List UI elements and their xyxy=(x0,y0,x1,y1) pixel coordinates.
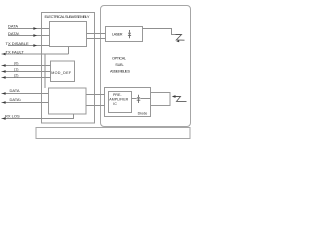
wire MOD-DEF 0 xyxy=(2,65,51,67)
arrow DATA out xyxy=(2,92,6,95)
electrical subassembly box xyxy=(42,13,95,124)
MOD_DEF box xyxy=(51,61,75,82)
tx fiber squiggle xyxy=(176,35,185,41)
wire RX LOS xyxy=(2,114,74,119)
wire DATA-bar out xyxy=(2,102,49,104)
svg-text:SUB-: SUB- xyxy=(115,63,124,67)
svg-text:(1): (1) xyxy=(14,67,18,71)
svg-text:DATA: DATA xyxy=(10,88,20,93)
photodiode symbol xyxy=(137,95,141,103)
pre-amplifier IC box xyxy=(109,92,132,113)
rx fiber squiggle xyxy=(176,97,187,102)
arrow TX DISABLE xyxy=(33,44,37,47)
svg-text:TX FAULT: TX FAULT xyxy=(6,49,25,54)
wire IC drop xyxy=(44,54,46,88)
receiver OSA box xyxy=(105,88,151,117)
wire receiver signal plus xyxy=(86,94,105,96)
post-amplifier IC box xyxy=(49,88,87,114)
svg-text:DATA\: DATA\ xyxy=(8,31,20,36)
arrow MOD-DEF 0 xyxy=(2,64,6,67)
wire TX DISABLE xyxy=(8,45,50,47)
tx fiber arrow xyxy=(176,40,179,42)
svg-text:Diode: Diode xyxy=(138,111,148,115)
svg-text:PRE-: PRE- xyxy=(113,93,122,97)
svg-text:AMPLIFIER: AMPLIFIER xyxy=(109,97,128,101)
wire MOD-DEF 1 xyxy=(2,71,51,73)
wire receiver signal minus xyxy=(86,105,105,107)
wire DATA in xyxy=(8,28,50,30)
wire laser drive minus xyxy=(87,38,106,40)
wire TX FAULT riser xyxy=(68,47,70,55)
svg-text:DATA\: DATA\ xyxy=(10,97,22,102)
wire photodiode to flange xyxy=(140,98,150,100)
module housing bottom box xyxy=(36,128,190,139)
svg-text:RX LOS: RX LOS xyxy=(5,113,20,118)
svg-text:DATA: DATA xyxy=(8,23,18,28)
optical subassemblies enclosure xyxy=(101,6,191,127)
svg-text:(2): (2) xyxy=(14,73,18,77)
arrow RX LOS xyxy=(2,117,6,120)
svg-text:LASER: LASER xyxy=(112,33,123,37)
LASER box xyxy=(106,27,143,42)
svg-text:IC: IC xyxy=(113,102,117,106)
fiber port flange box xyxy=(151,93,171,106)
wire MOD-DEF 2 xyxy=(2,77,51,79)
svg-text:TX DISABLE: TX DISABLE xyxy=(6,41,29,46)
wire DATA out xyxy=(2,93,49,95)
arrow DATA-bar in xyxy=(33,34,37,37)
svg-text:OPTICAL: OPTICAL xyxy=(112,56,126,60)
wire laser output xyxy=(143,29,176,35)
svg-text:(0): (0) xyxy=(14,61,18,65)
arrow DATA-bar out xyxy=(2,101,6,104)
arrow MOD-DEF 1 xyxy=(2,70,6,73)
laser driver IC box xyxy=(50,22,87,47)
wire photodiode to preamp xyxy=(132,98,137,100)
svg-text:ASSEMBLIES: ASSEMBLIES xyxy=(110,70,130,74)
arrow MOD-DEF 2 xyxy=(2,76,6,79)
wire DATA-bar in xyxy=(8,35,50,37)
wire TX FAULT xyxy=(2,53,69,55)
arrow TX FAULT xyxy=(2,53,6,56)
arrow DATA in xyxy=(33,27,37,30)
svg-text:ELECTRICAL SUBASSEMBLY: ELECTRICAL SUBASSEMBLY xyxy=(45,14,90,19)
wire laser drive plus xyxy=(87,33,106,35)
rx fiber arrow xyxy=(172,95,176,98)
svg-text:MOD_DEF: MOD_DEF xyxy=(51,71,72,75)
laser diode symbol xyxy=(128,30,131,38)
